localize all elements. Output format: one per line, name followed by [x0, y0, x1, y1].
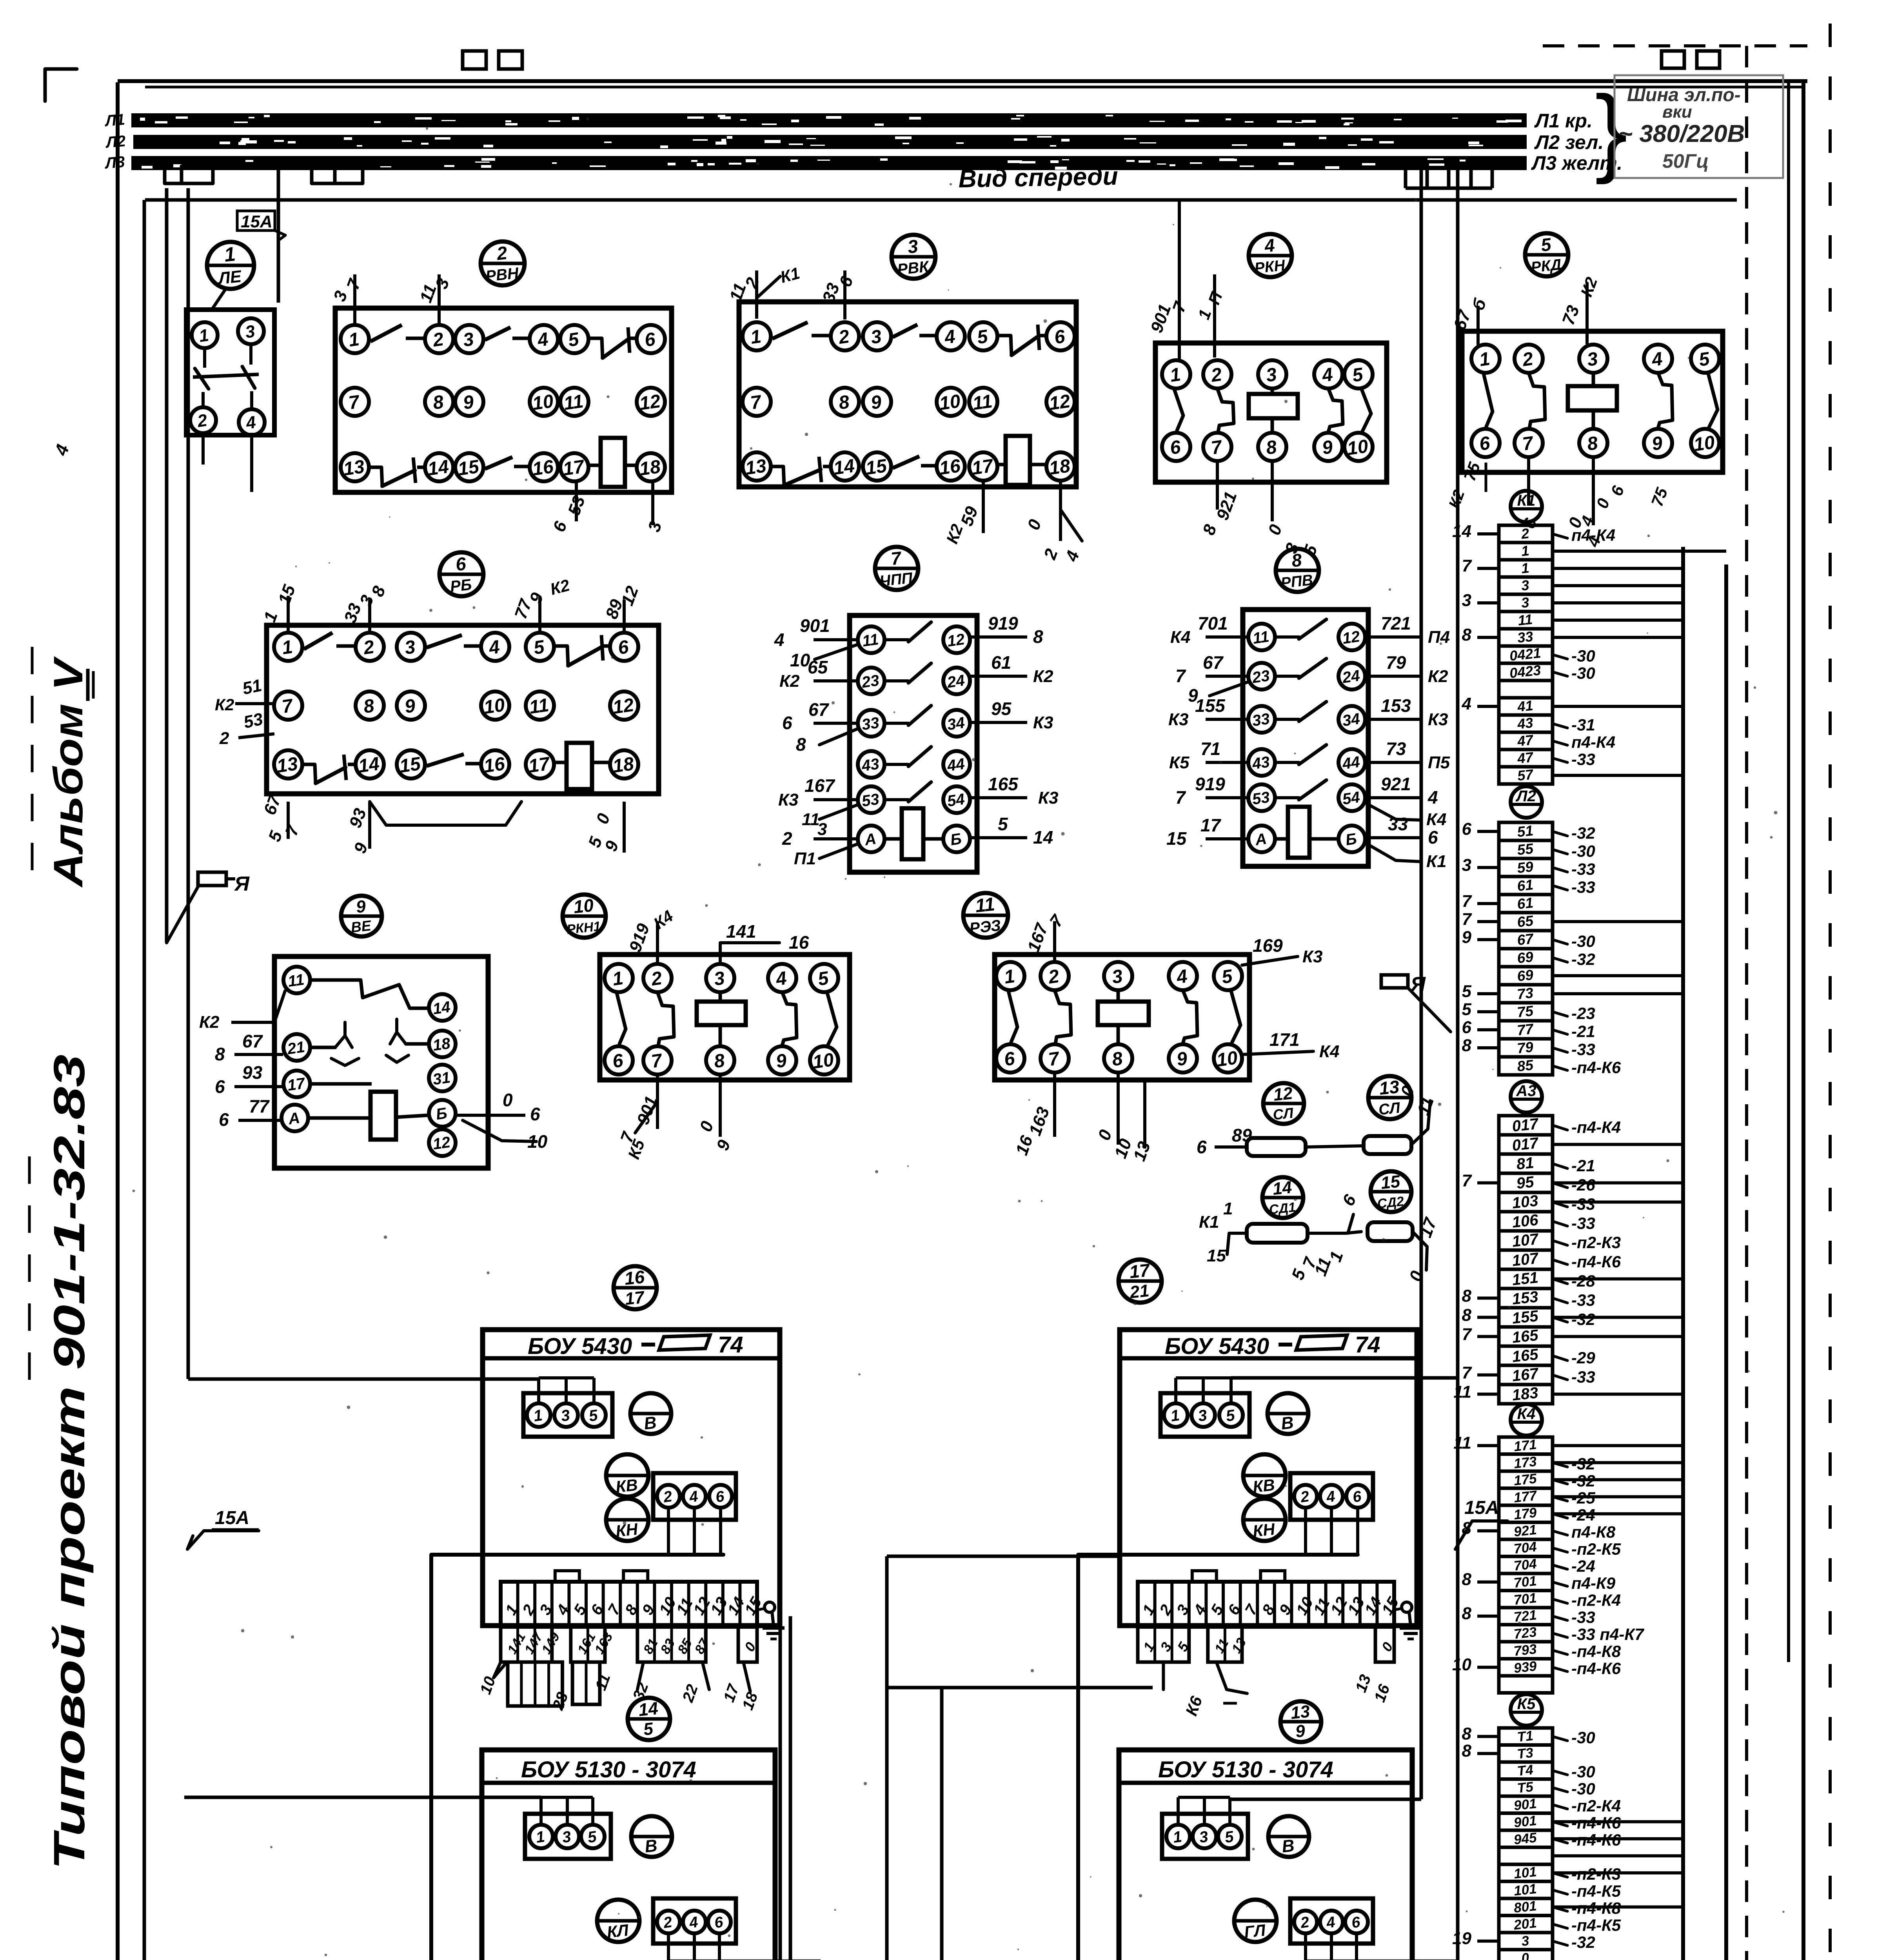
terminal А3:95 — [1462, 1171, 1683, 1194]
svg-text:БОУ 5430: БОУ 5430 — [528, 1334, 632, 1359]
terminal designator 17/21 — [1119, 1259, 1162, 1303]
svg-text:8: 8 — [1462, 1570, 1472, 1589]
wire labels below РБ — [260, 792, 624, 856]
svg-text:БОУ 5130 - 3074: БОУ 5130 - 3074 — [521, 1757, 696, 1782]
fork contact 18 of ВЕ — [386, 1019, 428, 1062]
svg-text:107: 107 — [1511, 1250, 1540, 1270]
indicator В of БОУ5430-2 — [1268, 1393, 1308, 1434]
wires from 2-4-6 of БОУ5430-2 — [1306, 1508, 1358, 1555]
terminal К4:179 — [1499, 1505, 1683, 1524]
pin 10 of РКД — [1691, 429, 1719, 457]
terminal К4:793 — [1499, 1641, 1621, 1661]
svg-text:44: 44 — [1341, 753, 1361, 773]
svg-text:13: 13 — [1290, 1702, 1311, 1723]
relay designator 6/РБ — [439, 552, 483, 596]
svg-text:0: 0 — [503, 1090, 513, 1110]
pin 5 of РКН — [1344, 360, 1373, 388]
svg-text:10: 10 — [483, 695, 507, 718]
designator 13/9 — [1280, 1701, 1321, 1742]
svg-text:К3: К3 — [778, 790, 799, 809]
svg-text:921: 921 — [1513, 1522, 1537, 1540]
terminal Л2:59 — [1462, 855, 1595, 878]
svg-text:-п2-К3: -п2-К3 — [1571, 1233, 1621, 1252]
pin 18 of РБ — [610, 750, 638, 779]
terminal Л2:85 — [1499, 1057, 1621, 1077]
contact block РПВ — [1243, 610, 1368, 866]
svg-text:12: 12 — [1273, 1083, 1294, 1105]
bus clamp 2 — [463, 51, 486, 69]
svg-text:Б: Б — [1344, 830, 1358, 849]
pin 18 of РВК — [1046, 452, 1075, 481]
svg-text:919: 919 — [988, 613, 1018, 633]
svg-text:54: 54 — [1341, 789, 1361, 808]
designator 14/5 — [628, 1698, 670, 1740]
svg-text:171: 171 — [1269, 1029, 1300, 1050]
svg-text:13: 13 — [744, 456, 768, 479]
terminal designator 16/17 — [614, 1266, 657, 1309]
svg-text:945: 945 — [1513, 1830, 1538, 1847]
svg-text:КВ: КВ — [615, 1475, 639, 1496]
wire drop x3718 — [1456, 169, 1460, 1960]
svg-text:14: 14 — [357, 753, 381, 777]
wire R13 right — [1397, 1083, 1438, 1145]
label Вид спереди — [958, 162, 1118, 193]
terminal Л2:79 — [1462, 1036, 1595, 1058]
svg-text:Л1: Л1 — [104, 111, 125, 130]
contact 11-12 of ЧПП — [885, 622, 931, 642]
bus Л2 — [133, 135, 1527, 149]
svg-text:К2: К2 — [215, 695, 234, 714]
wire R12-R13 — [1306, 1146, 1364, 1147]
svg-text:201: 201 — [1513, 1915, 1537, 1933]
svg-text:10: 10 — [1346, 436, 1370, 459]
svg-text:15: 15 — [457, 456, 481, 480]
svg-text:А: А — [1254, 830, 1268, 849]
svg-text:71: 71 — [1200, 739, 1220, 759]
svg-text:73: 73 — [1516, 985, 1535, 1002]
svg-text:69: 69 — [1516, 967, 1535, 984]
pin 3 of БОУ5130-1 — [556, 1825, 579, 1848]
terminal К1:3 — [1462, 591, 1683, 612]
pin 7 of РВН — [341, 388, 369, 416]
pin 1 of РЭЗ — [996, 962, 1024, 990]
pin 6 of РКН — [1162, 433, 1190, 461]
pin 4 of РВК — [937, 322, 965, 350]
pin 3 of РВК — [863, 322, 891, 350]
lamp designator 12/СЛ — [1263, 1083, 1304, 1124]
wire comb right — [1406, 169, 1492, 188]
coil of РВН — [589, 438, 636, 487]
pin 4 of РКД — [1644, 345, 1672, 373]
terminal К1:blank — [1499, 681, 1553, 698]
relay designator 3/РВК — [892, 235, 935, 279]
wire labels above РБ — [260, 576, 642, 633]
svg-text:-33: -33 — [1571, 1291, 1595, 1309]
svg-text:17: 17 — [1128, 1259, 1151, 1282]
pin 14 of РВК — [831, 452, 859, 481]
top-left corner mark — [45, 69, 77, 101]
bus label Л1 — [104, 111, 125, 130]
pin А of ВЕ — [281, 1105, 308, 1131]
svg-text:171: 171 — [1513, 1437, 1537, 1454]
pin 2 of ЛЕ — [190, 407, 216, 433]
wires to 1-3-5 of БОУ5430-2 — [1176, 1378, 1231, 1403]
svg-text:173: 173 — [1513, 1454, 1538, 1472]
svg-text:95: 95 — [1516, 1173, 1535, 1192]
terminal Л2:65 — [1462, 909, 1683, 931]
contact 53-54 of ЧПП — [885, 782, 931, 802]
terminal К1:43 — [1499, 715, 1595, 734]
pin 9 of РКД — [1644, 429, 1672, 457]
terminal К5:901 — [1499, 1813, 1683, 1832]
svg-text:77: 77 — [1516, 1021, 1535, 1038]
lamp designator 15/СД2 — [1371, 1171, 1411, 1212]
svg-text:10: 10 — [1452, 1655, 1471, 1674]
pin 14 of РБ — [356, 750, 384, 779]
wire labels above РВН — [330, 274, 453, 326]
svg-text:-33: -33 — [1571, 750, 1595, 769]
svg-text:17: 17 — [286, 1074, 307, 1094]
svg-text:П1: П1 — [794, 849, 816, 868]
svg-text:17: 17 — [971, 456, 995, 479]
pin 7 of РКН1 — [643, 1046, 672, 1074]
terminal Л2:77 — [1462, 1018, 1595, 1040]
svg-text:РВН: РВН — [485, 265, 520, 285]
svg-text:Б: Б — [949, 830, 963, 849]
svg-text:017: 017 — [1511, 1134, 1540, 1154]
wire labels below РВК — [943, 480, 1083, 564]
flag Я right — [1381, 973, 1451, 1032]
terminal А3:107 — [1499, 1230, 1621, 1252]
contact 13-14 of РБ — [303, 755, 355, 783]
coil of РКД — [1568, 373, 1617, 428]
svg-text:3: 3 — [817, 820, 827, 839]
svg-text:8: 8 — [1033, 626, 1043, 647]
pin 2 of РКН — [1203, 360, 1231, 388]
bus label Л2 — [104, 132, 126, 151]
bus clamp 3 — [499, 51, 522, 69]
pin 5 of БОУ5130-2 — [1218, 1825, 1242, 1848]
pin 7 of РКД — [1515, 429, 1543, 457]
coil of ЧПП — [885, 808, 943, 859]
wires from 2-4-6 of БОУ5130-2 — [1306, 1934, 1458, 1960]
pin 4 of РБ — [481, 633, 509, 661]
svg-text:723: 723 — [1513, 1624, 1538, 1642]
svg-text:-33: -33 — [1571, 1368, 1595, 1386]
wire labels below РКН1 — [617, 1075, 734, 1161]
lamp designator 14/СД1 — [1262, 1177, 1303, 1218]
svg-text:701: 701 — [1198, 613, 1228, 633]
contact 15-16 of РВН — [485, 457, 528, 469]
terminal К1:41 — [1462, 694, 1683, 715]
pin 3 of БОУ5130-2 — [1193, 1825, 1216, 1848]
contact 2-7 of РЭЗ — [1055, 990, 1071, 1044]
svg-text:47: 47 — [1516, 749, 1535, 766]
svg-text:7: 7 — [1462, 1325, 1473, 1344]
contact 5-10 of РЭЗ — [1231, 991, 1240, 1043]
pin 3 of БОУ5430-2 — [1191, 1403, 1215, 1427]
svg-text:59: 59 — [1516, 858, 1535, 876]
svg-text:11: 11 — [562, 391, 585, 414]
svg-text:К1: К1 — [1517, 492, 1536, 509]
wire labels left of ВЕ — [199, 991, 285, 1130]
bus Л1 — [131, 113, 1527, 127]
svg-text:67: 67 — [1203, 652, 1224, 673]
svg-text:93: 93 — [242, 1062, 263, 1083]
sub-terminal labels of БОУ5430-2 — [1182, 1672, 1393, 1718]
svg-text:КВ: КВ — [1252, 1475, 1276, 1496]
svg-text:8: 8 — [1462, 1724, 1472, 1744]
svg-text:33: 33 — [1516, 628, 1534, 646]
svg-text:51: 51 — [241, 676, 263, 699]
pin 8 of РКН1 — [706, 1046, 734, 1074]
svg-text:Типовой проект 901-1-32.83: Типовой проект 901-1-32.83 — [45, 1054, 94, 1870]
ground point of БОУ5430-1 — [757, 1602, 785, 1639]
svg-text:Б: Б — [435, 1105, 448, 1123]
svg-text:51: 51 — [1516, 822, 1534, 840]
wires from 2-4-6 of БОУ5130-1 — [668, 1934, 821, 1960]
svg-text:106: 106 — [1511, 1211, 1540, 1231]
pin 33 of РПВ — [1248, 706, 1275, 733]
svg-text:-33: -33 — [1571, 878, 1595, 896]
terminal К5:3 — [1452, 1929, 1595, 1952]
wire R14-R15 — [1288, 1191, 1361, 1283]
terminal К1:11 — [1499, 611, 1683, 629]
svg-text:793: 793 — [1513, 1641, 1538, 1659]
contact 4-9 of РКН — [1328, 388, 1343, 432]
svg-text:5: 5 — [998, 814, 1008, 834]
contact 43-44 of ЧПП — [885, 747, 931, 766]
svg-text:53: 53 — [242, 710, 265, 732]
pin 23 of ЧПП — [858, 668, 884, 694]
pin 9 of РКН1 — [768, 1046, 796, 1074]
indicator В of БОУ5430-1 — [630, 1393, 671, 1434]
pin 2 of РЭЗ — [1041, 962, 1069, 990]
terminal box 1-3-5 of БОУ5130-1 — [525, 1814, 611, 1859]
pin 4 of БОУ5130-2 — [1320, 1911, 1343, 1933]
coil of РВК — [998, 436, 1046, 485]
unit title БОУ5430-2 — [1165, 1332, 1380, 1359]
pin 5 of РКН1 — [810, 964, 838, 992]
terminal К5:Т4 — [1499, 1762, 1595, 1781]
resistor R12 — [1247, 1138, 1306, 1156]
svg-text:-33: -33 — [1571, 1195, 1595, 1213]
svg-text:-30: -30 — [1571, 647, 1595, 665]
wire labels below РВН — [549, 481, 665, 534]
terminal Л2:69 — [1499, 949, 1595, 968]
svg-text:155: 155 — [1195, 695, 1226, 716]
wire 15А to БОУ5430-1 — [188, 1377, 539, 1381]
svg-text:10: 10 — [527, 1131, 548, 1152]
pin 14 of РВН — [425, 453, 453, 481]
relay block РКН — [1155, 343, 1387, 482]
svg-text:9: 9 — [1462, 927, 1472, 947]
svg-text:В: В — [643, 1413, 657, 1434]
svg-text:101: 101 — [1513, 1881, 1537, 1899]
wire drop x1990 — [779, 1627, 782, 1960]
indicator КН of БОУ5430-1 — [606, 1499, 648, 1541]
terminal К5:Т3 — [1462, 1741, 1553, 1762]
svg-text:Альбом V: Альбом V — [45, 656, 91, 888]
unit box БОУ5430-1 — [483, 1330, 780, 1626]
svg-text:Л2 зел.: Л2 зел. — [1534, 131, 1604, 153]
pin 18 of РВН — [637, 453, 665, 481]
svg-text:6: 6 — [1197, 1137, 1207, 1157]
svg-text:К2: К2 — [199, 1013, 220, 1032]
wire drop x3625 — [1231, 169, 1421, 1799]
breaker block ЛЕ — [186, 310, 274, 435]
contact 33-34 of РПВ — [1276, 702, 1326, 721]
terminal К5:0 — [1499, 1950, 1553, 1960]
pin 4 of БОУ5130-1 — [683, 1911, 706, 1933]
wire drop x370 — [143, 200, 146, 1960]
coil of ВЕ — [309, 1092, 428, 1140]
svg-text:67: 67 — [808, 699, 830, 720]
svg-text:8: 8 — [1462, 1604, 1472, 1623]
svg-text:77: 77 — [249, 1096, 270, 1116]
pin 4 of ЛЕ — [239, 409, 265, 435]
svg-text:18: 18 — [432, 1035, 452, 1054]
svg-text:721: 721 — [1513, 1607, 1537, 1625]
bus end label Л3 желт. — [1531, 152, 1622, 174]
contact 1-6 of РКН1 — [617, 993, 626, 1044]
svg-text:-24: -24 — [1571, 1557, 1595, 1575]
svg-text:10: 10 — [1693, 432, 1716, 456]
terminal box 2-4-6 of БОУ5130-2 — [1290, 1898, 1373, 1944]
svg-text:54: 54 — [946, 791, 966, 810]
label 15А left — [187, 1508, 259, 1549]
terminal group designator К5 — [1511, 1694, 1542, 1726]
pin 8 of РЭЗ — [1104, 1044, 1132, 1073]
pin 1 of ЛЕ — [192, 322, 218, 348]
svg-text:15: 15 — [1207, 1246, 1226, 1265]
svg-text:34: 34 — [1341, 710, 1361, 730]
svg-text:183: 183 — [1511, 1384, 1539, 1404]
pin 43 of РПВ — [1248, 749, 1275, 776]
svg-text:2: 2 — [1520, 525, 1530, 542]
svg-text:50Гц: 50Гц — [1662, 150, 1709, 172]
contact 5-10 of РКН1 — [827, 993, 837, 1045]
svg-text:23: 23 — [860, 672, 880, 691]
pin Б of ЧПП — [943, 826, 970, 852]
wire К2 75 label — [1446, 460, 1486, 511]
resistor R15 — [1368, 1222, 1413, 1241]
indicator В of БОУ5130-1 — [631, 1816, 672, 1857]
svg-text:-30: -30 — [1571, 842, 1595, 860]
terminal К1:33 — [1462, 625, 1683, 646]
pin 15 of РВН — [455, 453, 483, 481]
svg-text:14: 14 — [1272, 1178, 1293, 1199]
svg-text:~ 380/220В: ~ 380/220В — [1618, 120, 1745, 147]
pin 23 of РПВ — [1248, 663, 1275, 690]
pin 3 of РКН1 — [706, 964, 734, 992]
svg-text:СЛ: СЛ — [1272, 1105, 1295, 1123]
svg-text:11: 11 — [974, 894, 996, 916]
terminal К1:57 — [1499, 766, 1683, 784]
svg-text:14: 14 — [432, 998, 451, 1018]
svg-text:8: 8 — [1462, 1036, 1472, 1055]
pin 6 of БОУ5130-2 — [1345, 1911, 1368, 1933]
sub-terminal labels of БОУ5430-1 — [477, 1671, 761, 1713]
contact 1-6 of РКН — [1174, 389, 1183, 430]
fuse label 15А — [237, 211, 285, 240]
pin 9 of РКН — [1314, 433, 1342, 461]
svg-text:11: 11 — [528, 695, 550, 718]
svg-text:721: 721 — [1381, 613, 1411, 633]
svg-text:33: 33 — [861, 714, 880, 734]
svg-text:74: 74 — [718, 1332, 743, 1357]
terminal К5:101 — [1499, 1881, 1621, 1900]
svg-text:11: 11 — [971, 391, 993, 414]
svg-text:-26: -26 — [1571, 1176, 1595, 1194]
cabinet dashed outline — [1543, 46, 1807, 1960]
pin 13 of РВН — [341, 453, 369, 481]
terminal К4:704 — [1499, 1539, 1621, 1558]
pin 53 of ЧПП — [858, 786, 884, 813]
contact 4-9 of РЭЗ — [1183, 990, 1197, 1044]
svg-text:704: 704 — [1513, 1556, 1537, 1574]
pin 5 of РКД — [1691, 345, 1719, 373]
svg-text:14: 14 — [832, 456, 856, 479]
svg-text:15А: 15А — [215, 1508, 249, 1528]
svg-text:-п4-К5: -п4-К5 — [1571, 1916, 1621, 1935]
svg-text:К4: К4 — [1319, 1042, 1340, 1061]
coil of РЭЗ — [1098, 990, 1149, 1044]
wire comb left 1 — [165, 166, 213, 183]
coil of РКН — [1249, 388, 1298, 432]
terminal К4:701 — [1499, 1590, 1621, 1610]
terminal К1:3 — [1499, 577, 1683, 594]
svg-text:-21: -21 — [1571, 1156, 1595, 1175]
pin 5 of БОУ5430-1 — [582, 1403, 606, 1427]
svg-text:К3: К3 — [1038, 788, 1059, 808]
svg-text:17: 17 — [624, 1288, 646, 1309]
terminal column wires vertical bus 1 — [1681, 547, 1685, 1960]
contact 3-4 of РВК — [893, 325, 935, 337]
svg-text:14: 14 — [427, 456, 450, 480]
pin 1 of РКД — [1471, 345, 1500, 373]
relay designator 4/РКН — [1249, 234, 1292, 277]
svg-text:17: 17 — [1200, 815, 1222, 835]
pin 2 of РКН1 — [643, 964, 672, 992]
relay designator 7/ЧПП — [875, 547, 918, 590]
pin 10 of РКН — [1344, 433, 1373, 461]
svg-text:12: 12 — [946, 631, 966, 650]
pin 12 of ВЕ — [429, 1129, 456, 1156]
wires to 1-3-5 of БОУ5130-1 — [541, 1797, 593, 1825]
pin 11 of ВЕ — [283, 967, 310, 993]
wire R14 left — [1199, 1199, 1247, 1265]
svg-text:1: 1 — [1520, 560, 1530, 577]
pin 9 of РВН — [455, 388, 483, 416]
wires from 2-4-6 of БОУ5430-1 — [668, 1508, 721, 1555]
terminal Л2:61 — [1499, 877, 1595, 896]
svg-text:10: 10 — [790, 650, 810, 670]
contact 23-24 of ЧПП — [885, 663, 931, 683]
svg-text:12: 12 — [432, 1134, 451, 1153]
pin 24 of ЧПП — [943, 668, 970, 694]
terminal box 2-4-6 of БОУ5130-1 — [653, 1898, 736, 1944]
pin 1 of РКН1 — [605, 964, 633, 992]
wire labels above РВК — [726, 264, 857, 319]
svg-text:-21: -21 — [1571, 1022, 1595, 1040]
terminal strip of БОУ5430-2 — [1138, 1571, 1402, 1627]
indicator КН of БОУ5430-2 — [1243, 1499, 1286, 1541]
pin 6 of РБ — [610, 633, 638, 661]
terminal К1:1 — [1499, 543, 1726, 560]
svg-text:8: 8 — [1462, 1519, 1472, 1538]
contact 1-2 of РБ — [304, 633, 354, 649]
